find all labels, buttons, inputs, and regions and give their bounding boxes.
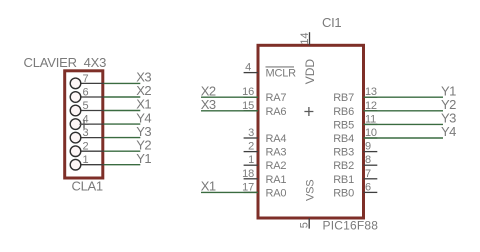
connector pin 2 circle — [70, 146, 81, 157]
wire net Y4 to RB4 — [364, 137, 444, 139]
svg-text:RA3: RA3 — [266, 147, 287, 159]
svg-text:VDD: VDD — [303, 59, 317, 85]
svg-text:5: 5 — [83, 100, 89, 112]
connector CLA1 body — [65, 71, 103, 178]
svg-text:18: 18 — [242, 168, 254, 180]
wire net Y3 from connector — [104, 137, 141, 139]
svg-text:RB1: RB1 — [333, 174, 354, 186]
connector pin 7 line — [81, 82, 104, 84]
connector pin 4 circle — [70, 119, 81, 130]
svg-text:MCLR: MCLR — [266, 68, 297, 80]
wire net Y1 from connector — [104, 164, 141, 166]
connector pin 5 line — [81, 110, 104, 112]
pin 15 (RA6) stub — [244, 110, 258, 112]
connector pin 3 line — [81, 137, 104, 139]
svg-text:6: 6 — [83, 86, 89, 98]
connector pin 5 circle — [70, 105, 81, 116]
svg-text:RB7: RB7 — [333, 92, 354, 104]
svg-text:VSS: VSS — [305, 180, 317, 201]
svg-text:RB5: RB5 — [333, 119, 354, 131]
connector pin 1 circle — [70, 159, 81, 170]
pin 7 (RB1) stub — [364, 178, 378, 180]
wire net X3 to RA6 — [201, 110, 258, 112]
svg-text:CI1: CI1 — [322, 15, 341, 30]
connector pin 4 line — [81, 123, 104, 125]
svg-text:RA4: RA4 — [266, 133, 287, 145]
svg-text:X3: X3 — [201, 97, 216, 112]
wire net X1 to RA0 — [201, 191, 258, 193]
IC CI1 origin cross — [304, 107, 313, 116]
pin 5 (VSS) stub — [308, 218, 310, 229]
pin 4 (MCLR) stub — [244, 72, 258, 74]
svg-text:Y4: Y4 — [441, 124, 456, 139]
wire net X2 from connector — [104, 96, 141, 98]
svg-text:2: 2 — [248, 141, 254, 153]
svg-text:RA7: RA7 — [266, 92, 287, 104]
svg-text:7: 7 — [83, 73, 89, 85]
wire net X1 from connector — [104, 110, 141, 112]
svg-text:RA6: RA6 — [266, 106, 287, 118]
pin 17 (RA0) stub — [244, 191, 258, 193]
svg-text:X1: X1 — [201, 179, 216, 194]
wire net X3 from connector — [104, 82, 141, 84]
svg-text:2: 2 — [83, 141, 89, 153]
svg-text:RB0: RB0 — [333, 187, 354, 199]
svg-text:6: 6 — [365, 181, 371, 193]
connector CLA1 origin cross — [80, 120, 89, 129]
wire net Y4 from connector — [104, 123, 141, 125]
svg-text:RB6: RB6 — [333, 106, 354, 118]
pin 2 (RA3) stub — [244, 151, 258, 153]
svg-text:3: 3 — [248, 127, 254, 139]
svg-text:7: 7 — [365, 168, 371, 180]
svg-text:Y1: Y1 — [136, 151, 151, 166]
pin 18 (RA1) stub — [244, 178, 258, 180]
pin 9 (RB3) stub — [364, 151, 378, 153]
wire net Y2 to RB6 — [364, 110, 444, 112]
svg-text:RA2: RA2 — [266, 160, 287, 172]
svg-text:PIC16F88: PIC16F88 — [323, 219, 379, 233]
svg-text:5: 5 — [299, 222, 311, 228]
pin 10 (RB4) stub — [364, 137, 378, 139]
connector pin 6 circle — [70, 92, 81, 103]
svg-text:11: 11 — [365, 113, 376, 125]
pin 1 (RA2) stub — [244, 164, 258, 166]
connector pin 1 line — [81, 164, 104, 166]
svg-text:CLA1: CLA1 — [72, 179, 103, 194]
pin 12 (RB6) stub — [364, 110, 378, 112]
svg-text:10: 10 — [365, 127, 377, 139]
svg-text:RA1: RA1 — [266, 174, 287, 186]
svg-text:16: 16 — [242, 86, 254, 98]
svg-text:RB2: RB2 — [333, 160, 354, 172]
svg-text:RA0: RA0 — [266, 187, 287, 199]
svg-text:CLAVIER 4X3: CLAVIER 4X3 — [24, 55, 107, 70]
pin 13 (RB7) stub — [364, 96, 378, 98]
pin 14 (VDD) stub — [309, 32, 311, 45]
svg-text:12: 12 — [365, 100, 377, 112]
wire net Y2 from connector — [104, 150, 141, 152]
wire net X2 to RA7 — [201, 96, 258, 98]
svg-text:RB3: RB3 — [333, 147, 354, 159]
pin 11 (RB5) stub — [364, 123, 378, 125]
svg-text:4: 4 — [245, 62, 251, 74]
svg-text:1: 1 — [248, 154, 254, 166]
connector pin 7 circle — [70, 78, 81, 89]
svg-text:15: 15 — [242, 100, 254, 112]
MCLR overline — [266, 66, 295, 68]
pin 16 (RA7) stub — [244, 96, 258, 98]
svg-text:17: 17 — [242, 181, 254, 193]
svg-text:1: 1 — [83, 154, 89, 166]
pin 8 (RB2) stub — [364, 164, 378, 166]
IC CI1 body — [258, 45, 364, 218]
svg-text:RB4: RB4 — [333, 133, 354, 145]
wire net Y3 to RB5 — [364, 123, 444, 125]
connector pin 6 line — [81, 96, 104, 98]
svg-text:8: 8 — [365, 154, 371, 166]
connector pin 2 line — [81, 150, 104, 152]
svg-text:9: 9 — [365, 141, 371, 153]
svg-text:13: 13 — [365, 86, 377, 98]
connector pin 3 circle — [70, 132, 81, 143]
pin 6 (RB0) stub — [364, 191, 378, 193]
wire net Y1 to RB7 — [364, 96, 444, 98]
svg-text:14: 14 — [299, 33, 311, 45]
pin 3 (RA4) stub — [244, 137, 258, 139]
